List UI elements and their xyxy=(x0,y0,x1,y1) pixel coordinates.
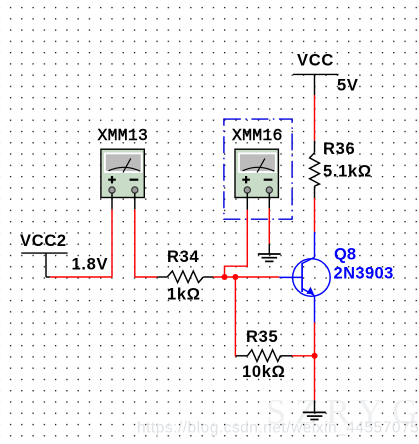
svg-text:Q8: Q8 xyxy=(334,245,356,263)
svg-text:5V: 5V xyxy=(337,77,359,95)
junction node B xyxy=(232,274,238,280)
svg-text:5.1kΩ: 5.1kΩ xyxy=(323,163,372,181)
wire XMM13 - to R34 (red) xyxy=(135,276,157,278)
svg-text:R35: R35 xyxy=(246,328,278,346)
wire R36 to Q8 collector (red) xyxy=(314,198,316,232)
wire R34 to base node (red) xyxy=(213,276,279,278)
power VCC2 symbol xyxy=(21,253,67,277)
multimeter XMM16 xyxy=(235,149,278,197)
svg-text:2N3903: 2N3903 xyxy=(334,265,394,283)
ground (under XMM16) xyxy=(258,244,281,262)
svg-text:VCC: VCC xyxy=(297,52,334,70)
svg-text:R36: R36 xyxy=(323,140,355,158)
power VCC symbol xyxy=(293,74,339,95)
ground (bottom) xyxy=(303,400,326,419)
svg-text:10kΩ: 10kΩ xyxy=(242,363,286,381)
wire node B down to R35 (red) xyxy=(234,277,237,356)
wire XMM16 + terminal down to node xyxy=(225,193,248,277)
resistor R36 xyxy=(310,141,320,198)
resistor R34 xyxy=(157,271,213,283)
wire XMM16 - terminal to ground xyxy=(268,193,270,244)
svg-text:1.8V: 1.8V xyxy=(72,256,109,274)
svg-text:R34: R34 xyxy=(167,248,199,266)
wire R35 to emitter (red) xyxy=(292,355,315,357)
selection box around XMM16 (dashed blue) xyxy=(224,119,292,219)
wire VCC2 to XMM13 + xyxy=(46,276,112,278)
wire XMM13 + terminal down xyxy=(111,193,113,277)
junction node A xyxy=(222,274,228,280)
svg-text:VCC2: VCC2 xyxy=(20,232,67,250)
wire XMM13 - terminal down xyxy=(134,193,136,277)
svg-text:https://blog.csdn.net/weixin_4: https://blog.csdn.net/weixin_44557075 xyxy=(137,420,419,437)
wire VCC to R36 (red) xyxy=(314,95,316,141)
multimeter XMM13 xyxy=(101,149,144,197)
wire emitter down (red) xyxy=(314,322,316,400)
svg-text:XMM13: XMM13 xyxy=(98,126,149,145)
svg-text:XMM16: XMM16 xyxy=(232,126,283,145)
resistor R35 xyxy=(236,350,292,362)
transistor Q8 xyxy=(279,232,330,323)
junction node C xyxy=(312,353,318,359)
svg-text:1kΩ: 1kΩ xyxy=(167,285,201,303)
